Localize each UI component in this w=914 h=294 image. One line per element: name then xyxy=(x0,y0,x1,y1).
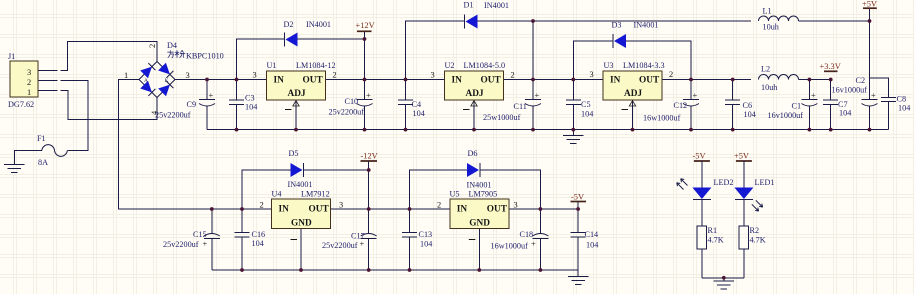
svg-text:104: 104 xyxy=(413,109,425,118)
svg-text:D4: D4 xyxy=(167,41,177,50)
wire -5V stem xyxy=(577,202,579,210)
power +12V xyxy=(356,21,375,31)
connector J1 xyxy=(8,52,38,109)
junction node at 573.3,129.6 xyxy=(571,128,575,132)
svg-text:ADJ: ADJ xyxy=(624,89,642,99)
junction node at 723.8,277.8 xyxy=(722,276,726,280)
svg-text:1: 1 xyxy=(124,71,128,80)
junction node at 242,209 xyxy=(240,207,244,211)
junction node at 211.8,209 xyxy=(210,207,214,211)
svg-text:+12V: +12V xyxy=(356,21,375,30)
svg-text:U4: U4 xyxy=(272,190,282,199)
svg-text:OUT: OUT xyxy=(481,76,502,86)
wire D6 branch xyxy=(410,170,541,209)
svg-text:16w1000uf: 16w1000uf xyxy=(491,242,529,251)
wire U3 ADJ stub xyxy=(632,100,634,130)
capacitor C1 xyxy=(768,80,818,130)
svg-text:2: 2 xyxy=(27,78,31,87)
diode D2 xyxy=(284,20,332,47)
svg-text:IN: IN xyxy=(274,76,285,86)
ground G4 xyxy=(714,278,735,289)
svg-text:IN: IN xyxy=(610,76,621,86)
wire bridge pin3 to U1 IN xyxy=(175,79,267,81)
power -12V xyxy=(361,152,378,162)
junction node at 405.5,79.5 xyxy=(404,78,408,82)
svg-text:C15: C15 xyxy=(193,230,207,239)
junction node at 368.7,209 xyxy=(367,207,371,211)
ground G2 xyxy=(563,130,584,144)
wire D1 branch and +5V line xyxy=(406,21,870,80)
regulator U5 LM7905 xyxy=(437,190,518,240)
svg-text:C18: C18 xyxy=(520,230,534,239)
wire -12V stem xyxy=(368,161,370,209)
capacitor C6 xyxy=(725,80,756,130)
junction node at 809.4,79.5 xyxy=(808,78,812,82)
svg-text:+: + xyxy=(209,91,214,100)
svg-text:OUT: OUT xyxy=(639,76,660,86)
junction node at 830.7,129.6 xyxy=(829,128,833,132)
svg-text:2: 2 xyxy=(333,71,337,80)
capacitor C2 xyxy=(832,76,878,130)
junction node at 540.4,209 xyxy=(539,207,543,211)
svg-text:KBPC1010: KBPC1010 xyxy=(186,52,224,61)
svg-text:K: K xyxy=(165,78,169,84)
svg-text:C8: C8 xyxy=(897,95,907,104)
svg-text:+3.3V: +3.3V xyxy=(820,62,841,71)
svg-text:C1: C1 xyxy=(792,102,802,111)
junction node at 479.3,270 xyxy=(477,268,481,272)
junction node at 691,129.6 xyxy=(689,128,693,132)
svg-text:D2: D2 xyxy=(284,20,294,29)
svg-text:25v2200uf: 25v2200uf xyxy=(155,111,191,120)
svg-text:LED2: LED2 xyxy=(714,178,734,187)
svg-text:3: 3 xyxy=(590,70,594,79)
wire D3 branch xyxy=(573,41,691,80)
svg-text:4.7K: 4.7K xyxy=(708,236,724,245)
svg-text:U1: U1 xyxy=(267,61,277,70)
junction node at 809.4,129.6 xyxy=(808,128,812,132)
svg-text:104: 104 xyxy=(252,239,264,248)
junction node at 533,79.5 xyxy=(531,78,535,82)
junction node at 732.7,129.6 xyxy=(731,128,735,132)
svg-text:F1: F1 xyxy=(37,134,46,143)
ground G3 xyxy=(568,270,589,285)
svg-text:IN4001: IN4001 xyxy=(484,1,509,10)
svg-text:104: 104 xyxy=(744,110,756,119)
svg-text:D6: D6 xyxy=(468,149,478,158)
LED2 xyxy=(677,161,734,226)
svg-text:IN4001: IN4001 xyxy=(467,181,492,190)
svg-text:C5: C5 xyxy=(581,100,591,109)
wire D5 branch xyxy=(242,170,369,209)
svg-text:25v2200uf: 25v2200uf xyxy=(163,240,199,249)
junction node at 296,129.6 xyxy=(294,128,298,132)
junction node at 409.5,270 xyxy=(408,268,412,272)
capacitor C3 xyxy=(229,80,257,130)
capacitor C5 xyxy=(566,80,593,130)
capacitor C14 xyxy=(571,209,599,270)
svg-text:IN: IN xyxy=(452,76,463,86)
svg-text:OUT: OUT xyxy=(303,76,324,86)
svg-text:R2: R2 xyxy=(750,226,760,235)
svg-text:104: 104 xyxy=(581,110,593,119)
svg-text:C9: C9 xyxy=(187,100,197,109)
capacitor C4 xyxy=(398,80,425,130)
svg-text:2: 2 xyxy=(260,201,264,210)
svg-text:D3: D3 xyxy=(612,21,622,30)
diode D5 xyxy=(288,149,313,189)
wire U5 OUT rail xyxy=(509,208,578,210)
wire J1.1 to bridge pin4 xyxy=(38,91,157,120)
resistor R1 xyxy=(697,226,724,278)
diode D6 xyxy=(467,149,492,190)
capacitor C17 xyxy=(322,209,377,270)
capacitor C9 xyxy=(155,80,215,130)
svg-text:+: + xyxy=(871,91,876,100)
regulator U3 LM1084-3.3 xyxy=(590,61,674,110)
svg-text:+: + xyxy=(360,240,365,249)
junction node at 573.3,79.5 xyxy=(571,78,575,82)
svg-text:U3: U3 xyxy=(604,61,614,70)
svg-text:C16: C16 xyxy=(252,230,266,239)
svg-text:A: A xyxy=(144,78,148,84)
svg-text:ADJ: ADJ xyxy=(288,89,306,99)
svg-text:10uh: 10uh xyxy=(761,83,777,92)
junction node at 474,129.6 xyxy=(472,128,476,132)
junction node at 242,270 xyxy=(240,268,244,272)
junction node at 578.1,209 xyxy=(576,207,580,211)
power +5V for LED1 xyxy=(734,152,752,162)
svg-text:C3: C3 xyxy=(245,94,255,103)
junction node at 364.5,129.6 xyxy=(363,128,367,132)
capacitor C12 xyxy=(643,80,699,130)
fuse F1 xyxy=(37,134,67,167)
svg-text:+5V: +5V xyxy=(734,152,749,161)
wire U2 OUT to U3 IN xyxy=(504,79,604,81)
junction node at 236.5,129.6 xyxy=(235,128,239,132)
junction node at 830.7,79.5 xyxy=(829,78,833,82)
svg-text:C17: C17 xyxy=(351,232,365,241)
inductor L1 xyxy=(759,7,799,32)
wire +12V stem xyxy=(364,31,366,79)
junction node at 301,270 xyxy=(299,268,303,272)
power +3.3V xyxy=(820,62,841,71)
junction node at 533,21 xyxy=(531,19,535,23)
svg-text:16w1000uf: 16w1000uf xyxy=(643,114,681,123)
junction node at 364.5,39 xyxy=(363,37,367,41)
svg-text:104: 104 xyxy=(839,109,851,118)
svg-text:2: 2 xyxy=(148,44,157,48)
label 方桥KBPC1010 xyxy=(167,50,185,58)
junction node at 368.7,270 xyxy=(367,268,371,272)
svg-text:-12V: -12V xyxy=(361,152,378,161)
svg-text:4.7K: 4.7K xyxy=(750,236,766,245)
wire U4 GND stub xyxy=(300,229,302,271)
svg-text:3: 3 xyxy=(339,201,343,210)
svg-text:DG7.62: DG7.62 xyxy=(8,100,34,109)
junction node at 405.5,129.6 xyxy=(404,128,408,132)
capacitor C10 xyxy=(329,80,373,130)
wire J1.2 to fuse xyxy=(38,81,88,151)
svg-text:L2: L2 xyxy=(761,65,770,74)
svg-text:1: 1 xyxy=(27,88,31,97)
junction node at 533,129.6 xyxy=(531,128,535,132)
svg-text:C6: C6 xyxy=(743,101,753,110)
svg-text:3: 3 xyxy=(186,71,190,80)
svg-text:L1: L1 xyxy=(763,7,772,16)
svg-text:IN: IN xyxy=(457,205,468,215)
resistor R2 xyxy=(739,226,766,278)
capacitor C11 xyxy=(483,80,541,130)
svg-text:104: 104 xyxy=(586,241,598,250)
power -5V for LED2 xyxy=(693,152,710,162)
regulator U4 LM7912 xyxy=(260,190,344,240)
svg-text:+: + xyxy=(811,91,816,100)
wire U1 OUT to U2 IN xyxy=(326,79,445,81)
svg-text:LM1084-12: LM1084-12 xyxy=(296,61,336,70)
ground G1 xyxy=(4,165,25,173)
svg-text:16v1000uf: 16v1000uf xyxy=(768,111,804,120)
svg-text:16v1000uf: 16v1000uf xyxy=(832,86,868,95)
wire C8 link xyxy=(870,78,889,97)
junction node at 869.5,21 xyxy=(868,19,872,23)
svg-text:U2: U2 xyxy=(445,61,455,70)
inductor L2 xyxy=(759,65,799,93)
junction node at 368.7,170 xyxy=(367,168,371,172)
junction node at 540.4,270 xyxy=(539,268,543,272)
regulator U2 LM1084-5.0 xyxy=(431,61,515,110)
wire top section ground rail xyxy=(207,129,889,131)
svg-text:R1: R1 xyxy=(708,226,718,235)
svg-text:2: 2 xyxy=(511,71,515,80)
junction node at 409.5,209 xyxy=(408,207,412,211)
svg-text:+: + xyxy=(531,240,536,249)
diode D3 xyxy=(612,21,659,49)
svg-text:OUT: OUT xyxy=(309,205,330,215)
junction node at 869.5,129.6 xyxy=(868,128,872,132)
capacitor C7 xyxy=(823,80,851,130)
svg-text:LM1084-5.0: LM1084-5.0 xyxy=(464,61,506,70)
svg-text:LM1084-3.3: LM1084-3.3 xyxy=(623,61,665,70)
svg-text:C13: C13 xyxy=(419,230,433,239)
power +5V xyxy=(862,0,877,9)
svg-text:8A: 8A xyxy=(38,158,48,167)
svg-text:C12: C12 xyxy=(674,101,688,110)
svg-text:D1: D1 xyxy=(464,1,474,10)
svg-text:+: + xyxy=(366,91,371,100)
svg-text:ADJ: ADJ xyxy=(466,89,484,99)
svg-text:25w1000uf: 25w1000uf xyxy=(483,113,521,122)
junction node at 236.5,79.5 xyxy=(235,78,239,82)
capacitor C16 xyxy=(235,209,266,270)
junction node at 732.7,79.5 xyxy=(731,78,735,82)
capacitor C18 xyxy=(491,209,549,270)
svg-text:D5: D5 xyxy=(289,149,299,158)
junction node at 632.5,129.6 xyxy=(631,128,635,132)
svg-text:104: 104 xyxy=(245,103,257,112)
svg-text:C10: C10 xyxy=(345,97,359,106)
capacitor C8 xyxy=(881,95,910,130)
svg-text:104: 104 xyxy=(420,240,432,249)
wire +5V stem down to C2 xyxy=(869,8,871,99)
svg-text:C14: C14 xyxy=(585,230,599,239)
svg-text:25v2200uf: 25v2200uf xyxy=(329,108,365,117)
wire bottom section ground rail xyxy=(212,269,578,271)
junction node at 207,79.5 xyxy=(205,78,209,82)
svg-text:LM7905: LM7905 xyxy=(469,190,498,199)
svg-text:LED1: LED1 xyxy=(755,178,775,187)
wire J1.3 to bridge pin2 xyxy=(38,41,157,70)
svg-text:3: 3 xyxy=(253,71,257,80)
svg-text:+5V: +5V xyxy=(862,0,877,9)
svg-text:+: + xyxy=(203,240,208,249)
svg-text:IN4001: IN4001 xyxy=(634,21,659,30)
wire U4 OUT to U5 IN xyxy=(331,208,450,210)
wire fuse to ground xyxy=(14,151,42,165)
diode D1 xyxy=(464,1,510,29)
svg-text:+: + xyxy=(693,91,698,100)
power -5V xyxy=(571,193,587,202)
svg-text:GND: GND xyxy=(469,219,490,229)
wire U5 GND stub xyxy=(478,229,480,271)
svg-text:-5V: -5V xyxy=(571,193,584,202)
LED1 xyxy=(734,161,774,226)
capacitor C13 xyxy=(402,209,432,270)
svg-text:C11: C11 xyxy=(514,102,527,111)
wire D2 branch xyxy=(237,39,365,80)
svg-text:IN4001: IN4001 xyxy=(288,180,313,189)
svg-text:C4: C4 xyxy=(412,100,422,109)
svg-text:3: 3 xyxy=(514,201,518,210)
svg-text:25v2200uf: 25v2200uf xyxy=(322,241,358,250)
junction node at 691,79.5 xyxy=(689,78,693,82)
junction node at 364.5,79.5 xyxy=(363,78,367,82)
svg-text:OUT: OUT xyxy=(487,205,508,215)
wire U1 ADJ stub xyxy=(295,100,297,130)
svg-text:+: + xyxy=(535,91,540,100)
wire LED ground link xyxy=(702,277,744,279)
svg-text:104: 104 xyxy=(898,104,910,113)
svg-text:LM7912: LM7912 xyxy=(301,190,330,199)
wire bridge pin1 to negative rail xyxy=(119,80,272,210)
svg-text:U5: U5 xyxy=(450,190,460,199)
svg-text:3: 3 xyxy=(431,71,435,80)
svg-text:2: 2 xyxy=(669,70,673,79)
svg-text:GND: GND xyxy=(291,219,312,229)
svg-text:10uh: 10uh xyxy=(763,23,779,32)
bridge rectifier D4 xyxy=(124,41,224,115)
svg-text:2: 2 xyxy=(437,201,441,210)
svg-text:C2: C2 xyxy=(856,76,866,85)
svg-text:3: 3 xyxy=(27,68,31,77)
wire U3 OUT to +3.3V rail xyxy=(662,79,831,81)
svg-text:-5V: -5V xyxy=(693,152,706,161)
svg-text:IN: IN xyxy=(279,205,290,215)
wire U2 ADJ stub xyxy=(473,100,475,130)
regulator U1 LM1084-12 xyxy=(253,61,337,110)
svg-text:J1: J1 xyxy=(8,52,15,61)
capacitor C15 xyxy=(163,209,220,270)
svg-text:IN4001: IN4001 xyxy=(306,20,331,29)
